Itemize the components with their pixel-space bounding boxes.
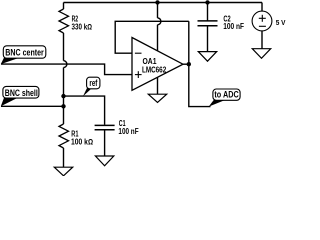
svg-text:LMC662: LMC662 [142, 64, 166, 74]
svg-text:100 kΩ: 100 kΩ [71, 138, 93, 147]
svg-text:to ADC: to ADC [214, 90, 239, 100]
svg-text:100 nF: 100 nF [223, 22, 244, 31]
svg-text:330 kΩ: 330 kΩ [72, 22, 93, 31]
svg-text:ref: ref [89, 78, 98, 88]
svg-text:5 V: 5 V [276, 18, 286, 27]
svg-text:BNC center: BNC center [5, 47, 44, 57]
svg-text:BNC shell: BNC shell [5, 88, 38, 98]
svg-text:100 nF: 100 nF [118, 127, 138, 136]
